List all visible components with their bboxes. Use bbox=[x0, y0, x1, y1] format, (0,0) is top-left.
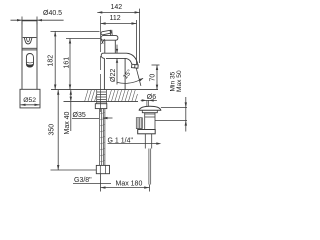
svg-text:Ø22: Ø22 bbox=[110, 69, 117, 82]
svg-text:Ø52: Ø52 bbox=[23, 97, 36, 104]
faucet front body bbox=[22, 21, 37, 90]
locknut bbox=[95, 104, 107, 109]
ext tick left bbox=[21, 17, 23, 25]
front spout arc inner bbox=[26, 38, 30, 42]
svg-text:Max 180: Max 180 bbox=[116, 181, 143, 188]
svg-text:Ø40.5: Ø40.5 bbox=[43, 10, 62, 17]
svg-text:Ø35: Ø35 bbox=[73, 112, 86, 119]
deck top line bbox=[51, 89, 158, 91]
dim Min/Max arrow down bbox=[185, 102, 187, 107]
ext tick right bbox=[36, 17, 38, 25]
dim Ø35 arrow bbox=[102, 117, 108, 119]
front base arrow left bbox=[21, 104, 26, 106]
dim 182 arrow up bbox=[54, 31, 56, 36]
dim 112 right ext line bbox=[136, 20, 138, 64]
dim 161 arrow up bbox=[69, 39, 71, 44]
dim Ø6 arrow left bbox=[142, 99, 147, 101]
svg-text:142: 142 bbox=[111, 4, 123, 11]
dim Max40 arrow up bbox=[70, 90, 72, 95]
cap bbox=[101, 36, 118, 41]
svg-text:182: 182 bbox=[47, 55, 54, 67]
dim 350 line bbox=[57, 90, 59, 170]
front base bbox=[20, 89, 40, 108]
handle lever bbox=[101, 30, 111, 35]
dim Max180 line bbox=[101, 187, 150, 189]
drain tail pipe bbox=[145, 134, 151, 149]
front lever seam bbox=[27, 61, 34, 64]
dim Max40 arrow down bbox=[70, 97, 72, 102]
spout bend inner bbox=[126, 58, 132, 64]
dim Ø35 arrow tail bbox=[104, 117, 113, 119]
deck bottom line bbox=[64, 101, 139, 103]
dim 142 line bbox=[97, 11, 139, 13]
dim Ø22 upper segment bbox=[116, 45, 118, 54]
dim Ø40.5 line bbox=[11, 19, 64, 21]
front joint double line lower bbox=[22, 49, 37, 51]
dim 350 arrow up bbox=[57, 90, 59, 95]
dim 161 top tick bbox=[66, 38, 100, 40]
body column bbox=[104, 58, 125, 89]
ref line hose end bbox=[51, 169, 97, 171]
drain cap dome bbox=[139, 106, 161, 110]
dim 182 line bbox=[54, 31, 56, 89]
dim Min/Max arrow up bbox=[185, 121, 187, 126]
svg-text:161: 161 bbox=[63, 57, 70, 69]
front spout arc outer bbox=[24, 38, 32, 44]
drain body bbox=[145, 113, 155, 130]
dim 70 arrow up bbox=[156, 65, 158, 70]
hose right bbox=[103, 109, 105, 166]
dim Ø40.5 arrow right bbox=[37, 19, 42, 21]
deck hatch left bbox=[85, 90, 97, 102]
dim 70 line bbox=[156, 65, 158, 90]
spout tube bbox=[101, 53, 126, 58]
neck bbox=[105, 40, 116, 53]
hose fitting nut bbox=[96, 165, 109, 173]
dim Ø6 arrow right bbox=[149, 99, 154, 101]
dim 70 arrow down bbox=[156, 85, 158, 90]
drain nut bbox=[138, 130, 156, 134]
svg-text:70: 70 bbox=[150, 74, 157, 82]
dim 182 top tick bbox=[51, 30, 100, 32]
front base dim line bbox=[21, 104, 40, 106]
dim 142 right ext line bbox=[139, 9, 141, 63]
dim 142 arrow right bbox=[135, 11, 140, 13]
dim G3/8 leader bbox=[73, 183, 111, 185]
dim Ø6 line bbox=[141, 99, 157, 101]
dim G 1 1/4 leader bbox=[108, 143, 158, 145]
dim 161 line bbox=[69, 39, 71, 90]
drain flange bbox=[142, 110, 157, 113]
spout outlet aerator bbox=[132, 64, 139, 68]
supply axis line bbox=[100, 16, 102, 112]
dim 15deg arrow bbox=[139, 78, 143, 81]
hose fitting inner lines bbox=[100, 165, 105, 173]
spout bend outer bbox=[127, 53, 138, 64]
dim 142 arrow left bbox=[97, 11, 102, 13]
dim 161 arrow down bbox=[69, 85, 71, 90]
front base arrow right bbox=[35, 104, 40, 106]
dim 350 arrow down bbox=[57, 165, 59, 170]
svg-text:Max 40: Max 40 bbox=[64, 111, 71, 134]
deck hatch right bbox=[108, 90, 138, 102]
svg-text:Max 50: Max 50 bbox=[176, 70, 183, 92]
svg-text:G3/8": G3/8" bbox=[74, 177, 92, 184]
dim Ø22 lower segment bbox=[116, 58, 118, 84]
handle stem strokes bbox=[101, 39, 105, 44]
front lever bottom shade bbox=[26, 64, 33, 67]
dim Ø35 leader bbox=[72, 118, 99, 120]
dim Max180 arrow right bbox=[144, 186, 149, 188]
svg-text:112: 112 bbox=[110, 15, 121, 22]
hose braid ticks bbox=[100, 113, 105, 163]
dim 182 arrow down bbox=[54, 85, 56, 90]
dim 15deg arc bbox=[117, 78, 143, 83]
dim 112 arrow left bbox=[101, 22, 106, 24]
dim Max180 left ext bbox=[100, 174, 102, 192]
dim Max180 right ext bbox=[149, 185, 151, 192]
front body top section line bbox=[23, 37, 37, 39]
drain side nut bbox=[136, 118, 142, 129]
dim Max180 arrow left bbox=[101, 186, 106, 188]
drain tail tube bbox=[149, 149, 151, 185]
dim Max40 line bbox=[70, 90, 72, 131]
dim G 1 1/4 arrow bbox=[156, 142, 161, 144]
dim Ø40.5 arrow left bbox=[17, 19, 22, 21]
basin line lower bbox=[155, 120, 187, 122]
hose left bbox=[100, 109, 102, 166]
front joint double line upper bbox=[22, 47, 37, 49]
threaded shank bbox=[97, 90, 107, 104]
basin line upper bbox=[161, 106, 187, 108]
dim 70 top tick bbox=[152, 64, 160, 66]
drain rod bbox=[147, 100, 149, 106]
front lever capsule bbox=[26, 54, 33, 68]
dim Min/Max line bbox=[185, 97, 187, 132]
dim Ø22 upper arrow bbox=[116, 49, 118, 53]
dim Ø22 lower arrow bbox=[116, 58, 118, 62]
handle hinge marks bbox=[110, 30, 112, 35]
dim 112 arrow right bbox=[132, 22, 137, 24]
dim 112 line bbox=[101, 23, 137, 25]
dim 15deg ref line bbox=[136, 68, 141, 86]
svg-text:350: 350 bbox=[49, 124, 56, 136]
